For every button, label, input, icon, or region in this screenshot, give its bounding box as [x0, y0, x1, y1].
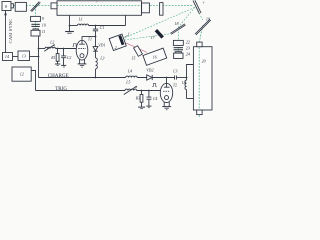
wire 12 to trig — [31, 71, 35, 91]
laser right electrode lead — [125, 15, 127, 25]
wire 14 to 13 — [13, 56, 19, 58]
item 22 filter — [173, 40, 183, 45]
svg-text:L3: L3 — [99, 57, 104, 61]
trig line — [36, 90, 126, 92]
svg-text:CAM SYNC: CAM SYNC — [8, 19, 13, 44]
etalon — [160, 3, 163, 16]
wire anode to T1 — [82, 36, 96, 38]
inductor L6 — [186, 78, 188, 81]
item 2 cell — [109, 34, 126, 50]
resistor R1 — [57, 49, 59, 54]
capacitor C3 — [174, 75, 176, 79]
wire to box 20 top electrode — [187, 65, 194, 78]
node C2 — [63, 48, 65, 50]
ground R3 — [138, 106, 145, 108]
item 9 filter — [31, 16, 41, 21]
svg-text:VD2: VD2 — [146, 69, 153, 73]
bus from item 11 down — [38, 36, 40, 78]
diode VD1 — [95, 37, 97, 47]
thyratron T1 — [76, 40, 88, 60]
node charge L3 — [95, 77, 97, 79]
svg-text:CHARGE: CHARGE — [48, 73, 69, 79]
svg-text:R1: R1 — [50, 56, 55, 60]
diode VD2 — [147, 75, 152, 80]
ground C2 — [61, 64, 66, 66]
node R3 — [141, 90, 143, 92]
svg-text:9: 9 — [42, 16, 44, 21]
wire to box 20 bottom electrode — [187, 98, 194, 100]
svg-text:18: 18 — [174, 21, 178, 26]
resistor R3 — [141, 91, 143, 95]
inductor L4 — [126, 76, 138, 77]
svg-text:L4: L4 — [127, 69, 132, 73]
item 17 — [155, 29, 164, 39]
node bus 13 — [38, 56, 40, 58]
laser oscillator box — [57, 1, 142, 16]
svg-text:10: 10 — [42, 22, 46, 27]
beam mirror 19 down to box 20 — [199, 26, 202, 119]
box 14 — [3, 53, 13, 61]
item 15 lens — [134, 46, 143, 57]
node anode — [95, 36, 97, 38]
capacitor C1 — [95, 26, 97, 30]
mirror 19 — [195, 19, 210, 34]
item 24 photodetector — [175, 52, 181, 53]
svg-text:8: 8 — [5, 4, 7, 9]
node — [69, 25, 71, 27]
ground T2 — [162, 106, 171, 108]
inductor L1 — [77, 24, 88, 25]
box 20 amplifier — [193, 47, 212, 110]
grid row wire — [39, 48, 46, 50]
capacitor C4 — [148, 91, 150, 98]
item 1 dark target — [118, 35, 124, 45]
svg-text:14: 14 — [5, 54, 9, 59]
bus wire L1 row — [70, 25, 78, 27]
beam vertical through 9 10 11 — [35, 6, 37, 29]
wire cam sync — [5, 11, 7, 53]
variable inductor L5 — [125, 89, 137, 90]
node C4 — [148, 90, 150, 92]
output coupler — [142, 3, 150, 13]
svg-text:12: 12 — [20, 72, 24, 77]
ground R1 — [55, 63, 60, 65]
svg-text:13: 13 — [22, 53, 26, 58]
svg-text:C3: C3 — [173, 69, 178, 73]
pulse symbol T1 grid — [73, 44, 78, 47]
svg-text:R3: R3 — [135, 96, 140, 100]
laser left electrode lead — [69, 15, 71, 31]
box 12 — [12, 67, 31, 81]
svg-text:L6: L6 — [181, 81, 186, 85]
svg-text:11: 11 — [42, 29, 46, 34]
svg-text:1: 1 — [128, 31, 130, 36]
mirror beamsplitter — [31, 2, 40, 11]
arrow up into box 8 — [4, 11, 7, 15]
pulse symbol T2 grid — [152, 84, 157, 87]
svg-text:20: 20 — [202, 58, 206, 63]
node C1 top — [95, 25, 97, 27]
box 20 top window stub — [197, 42, 202, 47]
labels — [5, 0, 210, 76]
svg-text:L2: L2 — [49, 40, 54, 44]
mirror 18 — [171, 24, 185, 33]
item 16 detector — [143, 48, 167, 65]
svg-text:C2: C2 — [67, 56, 72, 60]
svg-text:T2: T2 — [173, 83, 177, 87]
item 10 aperture — [31, 24, 39, 25]
item 23 aperture — [174, 47, 183, 48]
inductor L3 — [96, 58, 98, 69]
grating M2 — [193, 1, 199, 14]
svg-text:C1: C1 — [100, 26, 105, 30]
beam M2 to item 1 — [123, 7, 195, 38]
beam main horizontal — [14, 5, 194, 7]
svg-text:TRIG: TRIG — [55, 86, 67, 92]
beam mirror 18 to item 1 through 17 — [123, 34, 172, 41]
svg-text:L1: L1 — [78, 17, 83, 21]
beam M2 to mirror 19 — [197, 8, 203, 20]
wire 13 to bus — [30, 56, 39, 58]
capacitor C2 — [63, 49, 65, 56]
beam inside box 20 redrawn — [198, 48, 200, 110]
box 8 camera — [2, 2, 11, 11]
red beam item 1 to 15 to 16 — [124, 42, 147, 52]
svg-text:23: 23 — [186, 46, 190, 51]
leader line label 1 — [125, 35, 128, 37]
svg-text:L5: L5 — [125, 80, 130, 84]
svg-text:19: 19 — [206, 16, 210, 21]
svg-text:T1: T1 — [88, 37, 92, 41]
variable inductor L2 — [45, 47, 55, 48]
node C3 right — [186, 77, 188, 79]
svg-text:15: 15 — [131, 56, 135, 61]
beam M2 to mirror 18 — [177, 7, 195, 29]
left window stub — [51, 3, 57, 9]
svg-text:5: 5 — [96, 0, 98, 3]
item 11 photodetector — [33, 29, 38, 30]
box 13 — [18, 51, 30, 61]
charge line — [39, 77, 126, 79]
beam mirror 18 down through 22 23 24 — [177, 32, 179, 59]
svg-text:C4: C4 — [153, 97, 158, 101]
box attenuator — [15, 2, 26, 11]
svg-text:22: 22 — [186, 40, 190, 45]
ground T1 — [78, 63, 87, 65]
svg-text:VD1: VD1 — [98, 44, 105, 48]
thyratron T2 — [160, 83, 172, 102]
svg-text:2: 2 — [115, 45, 117, 50]
ground left — [65, 31, 74, 33]
svg-text:24: 24 — [186, 52, 190, 57]
ground C4 — [146, 105, 151, 107]
node R1 — [57, 48, 59, 50]
